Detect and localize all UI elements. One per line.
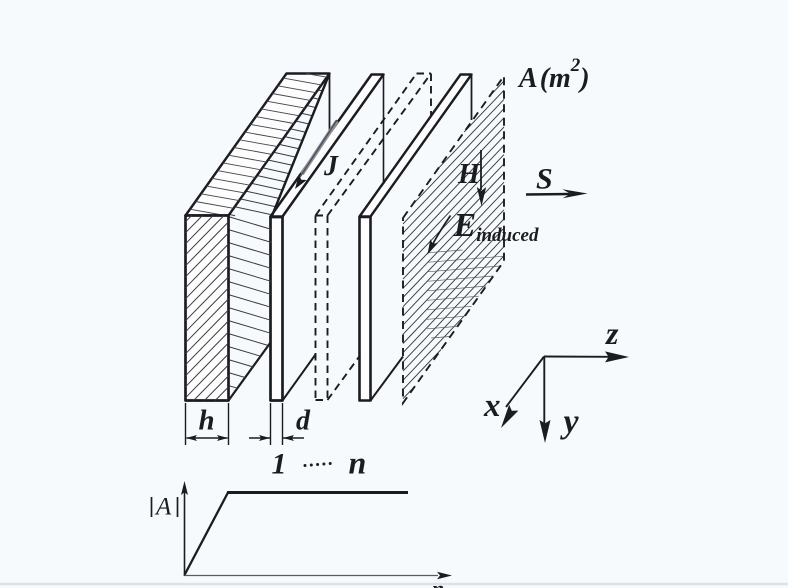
dimension d extension lines (271, 403, 283, 445)
plate n top face (360, 75, 472, 217)
current density J arrow line (300, 120, 337, 177)
graph ramp (185, 493, 229, 576)
svg-text:d: d (296, 406, 311, 437)
hatching of area plane A (flat patch) (427, 250, 504, 338)
svg-text:J: J (323, 151, 339, 182)
thick plate bottom-rear edge (229, 343, 271, 401)
thick plate top face hatching (190, 74, 327, 216)
plate 1 bottom-rear edge (283, 355, 316, 401)
Poynting vector S arrow (526, 193, 570, 196)
plate 1 top face (271, 75, 384, 217)
induced E field arrow (430, 216, 451, 251)
dimension h extension lines (186, 403, 229, 445)
svg-text:x: x (483, 388, 501, 424)
magnetic field H arrow (480, 150, 482, 190)
plate 1 rear vertical edge (383, 75, 385, 185)
dashed plate rear vertical edge (430, 74, 432, 117)
current density J arrowhead (295, 175, 307, 189)
thick plate rear vertical edge (329, 74, 331, 132)
thick plate top face (186, 74, 330, 216)
dashed plate front face (316, 216, 328, 401)
plate 1 front face (271, 217, 283, 401)
plate n front face (360, 217, 371, 401)
dashed plate top face (316, 74, 432, 216)
thick plate front face (186, 216, 229, 401)
svg-text:n: n (349, 445, 367, 481)
ellipsis dots (304, 464, 307, 467)
dimension d arrow lines (249, 437, 304, 439)
svg-text:A: A (154, 494, 172, 521)
svg-text:z: z (605, 315, 619, 351)
graph flat line (227, 491, 408, 494)
svg-text:1: 1 (272, 448, 287, 481)
current density J arrow shading (302, 121, 337, 174)
y axis (543, 357, 545, 425)
thick plate side face hatching (lower) (229, 217, 272, 399)
thick plate front face hatching (186, 216, 229, 401)
svg-text:H: H (457, 159, 481, 190)
faint scan line at bottom (0, 583, 788, 586)
graph horizontal axis (185, 575, 439, 577)
thick plate side face hatching (upper) (229, 82, 325, 216)
dashed outline of area plane A (403, 76, 504, 403)
thick plate side face rear boundary (272, 74, 330, 218)
svg-text:n: n (432, 576, 444, 588)
svg-text:S: S (536, 163, 553, 196)
z axis (544, 356, 610, 358)
x axis (506, 357, 544, 408)
dimension h arrow line (187, 437, 228, 439)
svg-text:h: h (199, 405, 215, 437)
hatching of area plane A (steep) (403, 81, 504, 399)
plate n bottom-rear edge (371, 357, 404, 401)
graph vertical axis (184, 489, 186, 576)
plate n rear vertical edge (471, 75, 473, 121)
dashed plate bottom-rear edge (328, 356, 361, 401)
